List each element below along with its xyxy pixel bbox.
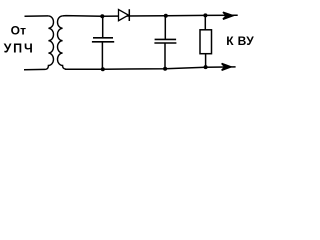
node junction dot bottom rail / C2 [163,67,167,71]
node junction dot bottom rail / R1 [204,65,208,69]
capacitor C1 bottom lead [101,42,103,69]
node junction dot top rail / C2 [164,14,168,18]
capacitor C1 plates [92,38,114,42]
resistor R1 body [200,30,212,54]
diode VD1 triangle [119,10,129,21]
capacitor C1 top lead [102,16,104,37]
node junction dot top rail / R1 [203,13,207,17]
capacitor C2 bottom lead [164,43,166,69]
capacitor C2 top lead [164,16,166,39]
svg-text:УПЧ: УПЧ [4,42,35,56]
resistor R1 top lead [204,15,206,29]
resistor R1 bottom lead [205,54,207,67]
svg-text:К ВУ: К ВУ [226,34,254,48]
node junction dot bottom rail / C1 [101,67,105,71]
text "От УПЧ" input label [4,24,35,56]
wire input top lead [25,15,49,17]
capacitor C2 plates [154,39,176,43]
wire input bottom lead [24,68,45,70]
transformer T1 secondary winding (right) [57,16,66,69]
output arrow top [223,12,233,19]
node junction dot top rail / C1 [100,14,104,18]
wire top rail [63,14,238,17]
transformer T1 primary winding (left) [45,16,54,70]
diode VD1 cathode bar [128,9,130,21]
output arrow bottom [222,64,231,71]
wire bottom rail [65,67,236,69]
svg-text:От: От [11,24,27,38]
